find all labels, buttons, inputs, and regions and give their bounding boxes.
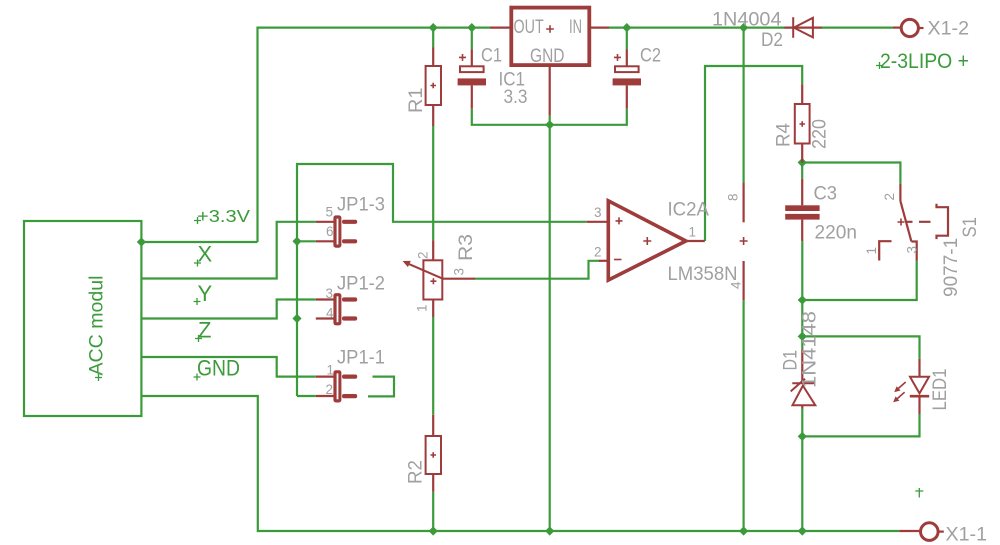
junction JP1-2 pin 4 <box>292 314 301 323</box>
svg-text:1: 1 <box>689 225 697 240</box>
svg-text:2: 2 <box>594 245 602 260</box>
wire: GND from ACC down to bottom rail <box>141 396 899 531</box>
resistor R4 <box>795 84 810 162</box>
resistor R2 <box>426 415 441 492</box>
jumper JP1-2 <box>316 293 357 325</box>
junction bottom rail at D1 column <box>798 526 807 535</box>
junction at R4 bottom / C3 / S1 <box>798 158 807 167</box>
diode D2 1N4004 <box>785 17 823 38</box>
terminal X1-2 <box>893 19 924 36</box>
svg-text:4: 4 <box>326 306 334 321</box>
svg-text:3: 3 <box>326 286 334 301</box>
wire: R2 bottom to GND rail <box>432 492 434 531</box>
wire: JP1-1 shorting loop <box>368 377 394 397</box>
svg-text:R3: R3 <box>456 234 477 261</box>
svg-text:1: 1 <box>415 304 430 312</box>
svg-text:IC2A: IC2A <box>668 200 710 221</box>
svg-text:OUT: OUT <box>514 17 544 38</box>
junction on rail at op-amp supply <box>739 23 748 32</box>
svg-text:LED1: LED1 <box>930 369 951 411</box>
wire: C3 top stub <box>801 163 803 179</box>
wire: Y net from ACC to JP1-2 pin 3 <box>141 300 315 319</box>
wire: S1 pin 3 down and back to C3 node <box>802 261 916 301</box>
svg-text:1N4004: 1N4004 <box>712 10 782 31</box>
svg-text:2: 2 <box>416 251 431 259</box>
ACC module box <box>24 221 141 416</box>
svg-text:Y: Y <box>198 281 213 306</box>
svg-text:ACC modul: ACC modul <box>87 276 108 376</box>
svg-text:220n: 220n <box>815 223 858 244</box>
svg-text:R2: R2 <box>406 460 427 484</box>
potentiometer R3 <box>403 240 475 317</box>
junction JP1-3 pin 6 <box>292 237 301 246</box>
svg-text:IN: IN <box>569 17 582 38</box>
wire: C2 top from rail <box>626 28 628 50</box>
voltage regulator IC1 box <box>511 8 589 66</box>
svg-text:9077-1: 9077-1 <box>941 238 962 297</box>
plus net marker above X1-1 <box>915 488 923 498</box>
Y net label <box>194 281 213 306</box>
svg-text:JP1-3: JP1-3 <box>337 195 385 216</box>
capacitor C2 (polarized) <box>613 50 641 109</box>
svg-text:4: 4 <box>728 281 743 289</box>
+3.3V net label <box>194 206 250 226</box>
svg-text:X1-1: X1-1 <box>946 525 988 545</box>
jumper JP1-1 <box>316 370 357 402</box>
svg-text:R1: R1 <box>406 88 427 114</box>
svg-text:LM358N: LM358N <box>668 264 738 285</box>
svg-text:D2: D2 <box>761 30 783 51</box>
wire: R1 bottom to R3 top <box>432 126 434 240</box>
svg-text:X1-2: X1-2 <box>928 19 970 40</box>
IC1 pin wire IN (right) <box>590 27 610 29</box>
Z net label <box>195 318 211 343</box>
svg-text:3: 3 <box>452 268 467 276</box>
svg-text:C1: C1 <box>481 46 502 67</box>
svg-text:GND: GND <box>530 46 565 67</box>
wire: JP1-3 pin 6 stub <box>297 240 316 242</box>
junction on rail at R1 <box>429 23 438 32</box>
junction on rail at C1 <box>467 23 476 32</box>
terminal X1-1 <box>899 523 944 541</box>
junction at D1/LED loop top <box>798 332 807 341</box>
wire: C2 bottom to GND node <box>550 109 627 125</box>
svg-text:1: 1 <box>864 247 879 255</box>
svg-text:3.3: 3.3 <box>504 87 528 108</box>
svg-text:1: 1 <box>327 363 335 378</box>
wire: R4 bottom node to S1 pin 2 <box>802 163 900 184</box>
switch S1 <box>879 184 948 261</box>
junction at D1/LED loop bottom <box>798 432 807 441</box>
junction at ACC +3.3V pin <box>137 237 146 246</box>
wire: C1 bottom to GND node <box>472 109 550 125</box>
X net label <box>194 242 213 267</box>
wire: D1 top stub <box>801 336 803 349</box>
IC1 pin names <box>514 17 583 67</box>
svg-text:R4: R4 <box>774 123 795 147</box>
wire: C3 bottom stub <box>801 241 803 300</box>
svg-text:1N4148: 1N4148 <box>800 311 821 388</box>
wire: op-amp pin 4 to bottom rail <box>742 300 744 531</box>
svg-text:2: 2 <box>326 382 334 397</box>
wire: D1 bottom to bottom rail <box>801 409 803 532</box>
wire: R3 wiper to op-amp pin 2 <box>475 261 600 279</box>
IC1 pin wire OUT (left) <box>490 27 511 29</box>
wire: column corner to JP1-1 pin 2 <box>297 395 316 397</box>
svg-text:6: 6 <box>326 224 334 239</box>
svg-text:GND: GND <box>197 356 240 381</box>
LED1 <box>893 359 929 414</box>
wire: LED1 bottom to loop bottom <box>802 414 919 436</box>
svg-text:C2: C2 <box>640 46 661 67</box>
svg-text:220: 220 <box>810 119 831 149</box>
svg-text:JP1-1: JP1-1 <box>337 348 385 369</box>
wire: regulator GND down to bottom rail <box>549 116 551 531</box>
wire: C1 top from rail <box>471 28 473 50</box>
wire: R1 top from rail <box>432 28 434 48</box>
svg-text:D1: D1 <box>781 350 802 371</box>
wire: +3.3V from ACC module to rail <box>141 241 257 243</box>
svg-text:3: 3 <box>905 246 920 254</box>
svg-text:2: 2 <box>882 193 897 201</box>
junction at C3 bottom / S1 return <box>798 295 807 304</box>
junction bottom rail at R2 <box>429 526 438 535</box>
wire: node down to D1 loop <box>801 300 803 336</box>
ACC module label <box>87 276 108 382</box>
wire: V+ top rail segments <box>258 28 894 242</box>
junction bottom rail at regulator GND <box>545 526 554 535</box>
diode D1 1N4148 <box>791 349 816 408</box>
wire: op-amp output up and over to R4 <box>705 66 802 241</box>
svg-text:C3: C3 <box>814 184 838 205</box>
jumper JP1-3 <box>316 215 357 247</box>
capacitor C3 <box>785 179 819 241</box>
2-3LIPO + net label <box>876 50 969 73</box>
junction bottom rail at op-amp pin 4 <box>739 526 748 535</box>
svg-text:3: 3 <box>594 205 602 220</box>
svg-text:+3.3V: +3.3V <box>197 206 250 226</box>
svg-text:JP1-2: JP1-2 <box>337 274 385 295</box>
resistor R1 <box>426 48 441 127</box>
svg-text:2-3LIPO +: 2-3LIPO + <box>880 50 969 73</box>
wire: Z net from ACC to JP1-1 pin 1 <box>141 357 315 377</box>
IC1 pin wire GND (bottom) <box>549 66 551 116</box>
wire: loop top to LED1 <box>802 336 919 359</box>
svg-text:S1: S1 <box>960 217 981 238</box>
svg-text:5: 5 <box>326 205 334 220</box>
op-amp IC2A <box>587 182 748 300</box>
wire: R3 bottom to R2 top <box>432 317 434 415</box>
wire: op-amp V+ pin 8 from rail <box>742 28 744 183</box>
svg-text:8: 8 <box>726 193 741 201</box>
junction at GND node under regulator <box>545 120 554 129</box>
capacitor C1 (polarized) <box>458 50 486 109</box>
GND net label <box>194 356 241 381</box>
wire: jumper select column and route to op-amp pin 3 <box>297 164 587 396</box>
junction on rail at C2 <box>622 23 631 32</box>
wire: X net from ACC to JP1-3 pin 5 <box>141 222 315 279</box>
